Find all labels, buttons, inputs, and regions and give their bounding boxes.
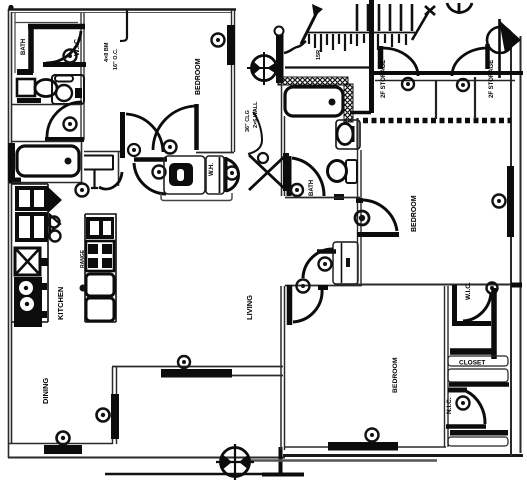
- svg-text:W.I.C.: W.I.C.: [74, 37, 81, 56]
- wall: junction tick right outer: [511, 283, 522, 288]
- wall: living bottom outer: [232, 375, 283, 377]
- window: dining bottom bar: [44, 445, 82, 454]
- wall: corner dot top-left: [8, 5, 13, 10]
- symbol: hinge circle bath door: [64, 118, 77, 131]
- svg-text:BATH: BATH: [21, 39, 27, 55]
- symbol: hinge circle bedroom3 door: [297, 280, 310, 293]
- wall: bedroom1 bottom east segment: [196, 152, 234, 154]
- wall: annex horizontal double: [370, 71, 523, 75]
- symbol: white circle atop bar: [275, 27, 284, 36]
- door arc: NIC door: [466, 391, 485, 424]
- leader: top-left annotation: [120, 10, 127, 41]
- symbol: circle at X door top: [258, 153, 268, 163]
- svg-text:36" CLG: 36" CLG: [245, 110, 251, 132]
- symbol: hinge circle storage right: [457, 79, 469, 91]
- symbol: hinge circle NIC: [457, 397, 470, 410]
- symbol: hinge circle wic: [64, 50, 77, 63]
- appliance: range dark frame: [14, 277, 42, 317]
- appliance: cabinet dark frame: [15, 212, 48, 242]
- counter: left run outline: [12, 184, 48, 322]
- door: storage right leaf: [485, 44, 490, 69]
- wall: hatched right of tub: [344, 84, 353, 122]
- porch: gray slab line right: [250, 459, 437, 462]
- appliance: double sink: [86, 274, 114, 296]
- fixture: toilet hall bath: [336, 120, 360, 149]
- door: hall closet leaf: [317, 249, 336, 254]
- svg-text:2F STORAGE: 2F STORAGE: [381, 60, 387, 98]
- door arc: storage left: [383, 48, 418, 76]
- wall: right outer double: [511, 33, 521, 456]
- stair: squiggle handrail: [284, 41, 306, 53]
- fixture: toilet top-left: [17, 79, 35, 96]
- wall: annex right divider: [474, 77, 476, 119]
- stair: landing line: [285, 66, 370, 68]
- symbol: circle at bedroom3 window: [366, 429, 379, 442]
- svg-text:4×8 BM: 4×8 BM: [104, 42, 110, 62]
- porch: slab bottom edge: [105, 473, 282, 475]
- wall: toilet nook right: [356, 118, 358, 150]
- closet: tray under boxes: [161, 193, 232, 201]
- wall: WIC right thick: [491, 288, 497, 359]
- closet: box 3: [448, 437, 508, 446]
- svg-text:BEDROOM: BEDROOM: [392, 357, 399, 393]
- fixture: bathtub master: [17, 146, 79, 176]
- wall: bedroom3 bottom inner: [285, 446, 446, 448]
- wall: top outer double line: [8, 8, 236, 11]
- door: bedroom3 header stub: [318, 285, 328, 290]
- door arc: bedroom2: [362, 200, 397, 231]
- wall: living bottom inner: [112, 366, 283, 368]
- stair: upper treads tall: [357, 4, 412, 31]
- door arc: bedroom1 right: [153, 106, 196, 150]
- counter: black bottom bar: [14, 317, 42, 327]
- wall: dotted existing wall: [363, 118, 511, 124]
- wall: annex middle divider: [435, 81, 437, 119]
- wall: tub room top: [12, 141, 80, 143]
- wall: bedroom1 right wall: [232, 10, 235, 152]
- wall: hall/bath left vertical: [282, 85, 285, 196]
- symbol: circle at 134,150: [128, 144, 140, 156]
- door: NIC leaf: [448, 388, 467, 393]
- wall: wic thick L: [28, 24, 85, 73]
- wall: strip top: [84, 151, 123, 153]
- wall: bath bottom line: [12, 104, 81, 106]
- wall: wic/bath right wall: [81, 13, 84, 140]
- fixture: toilet curve: [99, 172, 122, 189]
- fixture: tub drain: [329, 99, 336, 106]
- wall: NIC bottom thick: [446, 424, 486, 429]
- wall: tub/kitchen divider: [12, 182, 82, 184]
- door: bedroom2 leaf: [357, 232, 399, 237]
- svg-text:KITCHEN: KITCHEN: [56, 287, 65, 320]
- wall: nook right edge: [118, 152, 120, 186]
- wall: under toilet thick: [17, 98, 41, 103]
- wall: dining/living divider: [113, 367, 117, 444]
- wall: bedroom2 left wall: [358, 150, 362, 285]
- wall: entry black bar: [276, 30, 284, 83]
- door: bath door leaf: [45, 137, 84, 142]
- door: strip left leaf: [134, 157, 167, 162]
- fixture: vanity box: [84, 155, 113, 170]
- window: bedroom3 bottom black bar: [328, 442, 398, 451]
- closet: box with CLOSET text: [448, 356, 508, 366]
- symbol: hinge circle bedroom2: [355, 211, 369, 225]
- door arc: strip right half disc: [226, 157, 238, 192]
- symbol: circle left bath: [76, 184, 89, 197]
- symbol: circle at divider: [97, 409, 110, 422]
- symbol: hinge circle storage left: [402, 78, 414, 90]
- svg-text:DINING: DINING: [41, 378, 50, 404]
- wall: bottom outer long line: [8, 457, 285, 459]
- wall: bedroom3 right wall: [445, 286, 449, 447]
- closet: heater box: [206, 156, 224, 194]
- corner: dark triangles: [48, 187, 62, 213]
- door: storage left leaf: [378, 46, 384, 69]
- wall: closet bottom thick: [449, 382, 509, 387]
- symbol: circle bedroom1 window: [212, 34, 225, 47]
- window: divider black bar: [111, 394, 119, 439]
- wall: below wic thick: [17, 69, 33, 75]
- svg-text:BATH: BATH: [309, 180, 315, 196]
- door arc: strip left: [134, 163, 166, 194]
- svg-text:BEDROOM: BEDROOM: [411, 195, 418, 232]
- appliance: fridge dark frame: [15, 186, 48, 211]
- wall: stair right vertical: [369, 0, 374, 113]
- closet: washer box: [164, 156, 205, 194]
- door arc: hall bath door: [292, 158, 324, 196]
- door arc: hall closet door opening up: [303, 249, 333, 278]
- window: right outer wall black bar: [507, 166, 514, 237]
- stair: lower treads short: [309, 34, 406, 52]
- appliance: cooktop black burners: [86, 241, 114, 271]
- wall: WIC left thick L: [452, 285, 491, 324]
- symbol: hinge circle strip left: [153, 166, 166, 179]
- closet: hall linen box: [333, 242, 358, 284]
- door: bedroom1 right leaf: [194, 104, 199, 150]
- symbol: entry circle-cross top: [247, 52, 281, 85]
- fixture: drain pipe leg: [91, 170, 98, 188]
- door: hall bath leaf: [287, 156, 292, 196]
- wall: bedroom3 bottom outer: [283, 454, 523, 457]
- door: bedroom1 left leaf: [120, 112, 125, 158]
- svg-text:N.I.C.: N.I.C.: [446, 397, 453, 414]
- door arc: WIC door: [463, 292, 491, 321]
- svg-text:CLOSET: CLOSET: [459, 360, 485, 367]
- stair: arrow right diagonal: [412, 11, 429, 40]
- window: left wall black segment: [8, 143, 15, 181]
- wall: tub bottom thick: [9, 178, 21, 184]
- symbol: circle at bedroom2 window: [493, 195, 506, 208]
- door: wic leaf bottom: [43, 62, 86, 67]
- symbol: hinge circle hall bath: [291, 184, 303, 196]
- door arc: bath door: [47, 102, 82, 137]
- fixture: threshold dash: [334, 194, 344, 200]
- wall: WIC bottom thick: [450, 348, 496, 355]
- door arc: storage right: [452, 48, 486, 76]
- door arc: top entry arc: [447, 3, 472, 14]
- wall: annex left horizontal stub: [350, 111, 371, 115]
- symbol: hinge circle bedroom1: [164, 141, 177, 154]
- window: living bottom black bar: [161, 369, 232, 378]
- svg-text:LIVING: LIVING: [245, 295, 254, 320]
- svg-text:RANGE: RANGE: [80, 249, 86, 268]
- wall: hatched masonry top: [278, 77, 348, 85]
- door: bedroom2 wall stub: [356, 198, 363, 203]
- counter: side tabs: [40, 258, 48, 266]
- svg-text:W.H.: W.H.: [209, 163, 215, 176]
- door: bifold X: [249, 155, 286, 190]
- fixture: sink vanity hall bath: [346, 160, 357, 183]
- fixture: sink top-left: [52, 75, 84, 104]
- stair: up arrow left: [301, 10, 318, 44]
- wall: bedroom3 left wall: [281, 286, 285, 450]
- svg-text:W.I.C.: W.I.C.: [465, 282, 472, 300]
- symbol: hinge circle WIC: [487, 283, 498, 294]
- symbol: circle at dining window: [57, 432, 70, 445]
- wall: bedroom2 bottom: [358, 284, 512, 286]
- svg-text:16" O.C.: 16" O.C.: [113, 48, 119, 70]
- closet: black shelf bar: [450, 430, 508, 436]
- stair: arrow x mark: [425, 6, 435, 15]
- wall: wic box outline: [15, 13, 78, 73]
- wall: bedroom3/hall horizontal: [285, 285, 362, 287]
- symbol: hinge circle strip right: [226, 167, 239, 180]
- stair: stringer line: [306, 32, 415, 34]
- leader: hall annotation: [248, 112, 262, 154]
- symbol: knob circles: [49, 217, 60, 228]
- fixture: bathtub hall: [285, 87, 343, 116]
- symbol: entry circle-cross marker: [216, 444, 254, 480]
- closet: box 2: [448, 369, 508, 382]
- svg-text:BEDROOM: BEDROOM: [195, 58, 202, 95]
- wall: bath bottom wall: [285, 197, 360, 199]
- symbol: hinge circle hall closet: [319, 258, 332, 271]
- porch: right step thick L: [262, 447, 304, 475]
- wall: left outer double line: [9, 9, 12, 458]
- door arc: bedroom1 left: [126, 114, 163, 152]
- svg-text:2×6 WALL: 2×6 WALL: [253, 101, 259, 128]
- symbol: fan/north marker top right: [487, 19, 521, 78]
- wall: strip right black bar: [283, 153, 289, 191]
- door: bedroom3 leaf: [287, 285, 293, 325]
- svg-text:2F STORAGE: 2F STORAGE: [489, 60, 495, 98]
- door arc: bedroom3 entry: [293, 289, 322, 322]
- symbol: circle at living window: [178, 356, 190, 368]
- door arc: wic door: [46, 31, 81, 63]
- appliance: dishwasher X: [15, 248, 40, 275]
- fixture: washer dark square: [169, 163, 193, 186]
- counter: right run outline: [85, 214, 116, 322]
- appliance: upper cabinet right: [86, 217, 114, 239]
- wall: dining bottom inner: [9, 443, 113, 445]
- svg-text:15R: 15R: [316, 50, 322, 60]
- window: bedroom1 right wall black bar: [227, 25, 235, 65]
